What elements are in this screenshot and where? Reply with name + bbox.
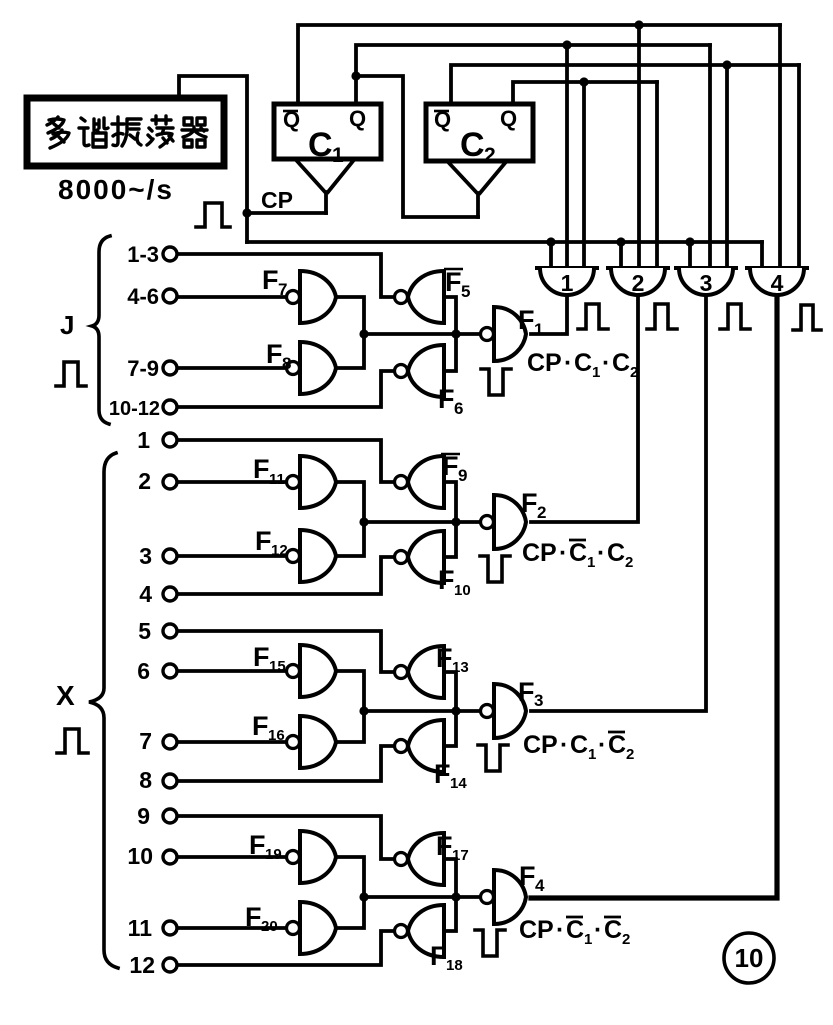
label CP.C1.C2: [527, 349, 638, 381]
input terminal 12: [163, 958, 177, 972]
junction bus3 to gate 3: [722, 60, 731, 69]
svg-text:·: ·: [556, 916, 564, 944]
svg-text:CP: CP: [261, 187, 293, 213]
NAND gate F15: [287, 645, 337, 697]
svg-text:10: 10: [127, 843, 153, 869]
svg-text:1: 1: [584, 931, 592, 948]
wire gate 2 output to F2: [531, 295, 638, 522]
wire F13 and F14 outputs to node: [444, 672, 456, 746]
svg-text:·: ·: [564, 349, 572, 377]
pulse symbol at gate 2 output: [647, 304, 677, 329]
wire bus3 into gate 3: [725, 65, 729, 268]
svg-text:Q: Q: [500, 106, 517, 131]
NAND gate F18: [395, 905, 445, 957]
label F12: [255, 526, 288, 559]
pulse distributor gate 3: [676, 268, 736, 295]
label F18: [430, 941, 463, 974]
figure number circle 10: [724, 933, 774, 983]
svg-text:14: 14: [450, 775, 467, 792]
svg-text:CP: CP: [523, 731, 558, 759]
svg-text:8000~/s: 8000~/s: [58, 174, 174, 205]
input terminal 11: [163, 921, 177, 935]
svg-text:·: ·: [559, 539, 567, 567]
svg-text:F: F: [445, 267, 462, 297]
wire input 2 to F11: [177, 480, 286, 484]
svg-text:F: F: [249, 830, 266, 860]
svg-text:C: C: [608, 731, 626, 759]
pulse symbol at gate 4 output: [793, 305, 821, 330]
label F15: [253, 642, 286, 675]
wire node to F1 input: [364, 332, 480, 336]
svg-text:10-12: 10-12: [109, 398, 160, 420]
label F10: [438, 565, 471, 599]
svg-text:C: C: [607, 539, 625, 567]
input terminal 2: [163, 475, 177, 489]
svg-text:2: 2: [630, 364, 638, 381]
svg-text:C: C: [612, 349, 630, 377]
wire from multivibrator to CP node: [179, 76, 247, 242]
svg-text:3: 3: [534, 691, 543, 710]
pulse symbol at X: [57, 729, 88, 753]
svg-text:·: ·: [597, 539, 605, 567]
svg-text:C: C: [574, 349, 592, 377]
wire input 7-9 to F8: [177, 366, 286, 370]
pulse symbol at gate 1 output: [578, 304, 608, 329]
svg-text:F: F: [438, 384, 455, 414]
wire gate 3 output to F3: [531, 295, 706, 711]
svg-text:10: 10: [735, 943, 764, 973]
flip-flop C1 box: [274, 104, 381, 159]
multivibrator box: [27, 98, 224, 166]
character duo (multi) of multivibrator label: [47, 117, 69, 148]
NAND gate F16: [287, 716, 337, 768]
brace for X inputs: [89, 453, 118, 968]
label F13: [436, 643, 469, 676]
NAND gate F19: [287, 831, 337, 883]
svg-text:11: 11: [269, 471, 285, 488]
wire bus2 into gate 3: [708, 45, 712, 268]
junction CP to gate 1: [546, 237, 555, 246]
label F5: [444, 267, 470, 301]
wire input 9 to F17: [177, 816, 394, 859]
wire input 10 to F19: [177, 855, 286, 859]
NAND gate F4: [481, 870, 527, 924]
wire F7 and F8 outputs to node: [336, 297, 364, 368]
svg-text:1: 1: [587, 554, 595, 571]
svg-text:2: 2: [138, 468, 151, 494]
input terminal 1: [163, 433, 177, 447]
wire CP to C1 trigger: [247, 211, 326, 215]
svg-text:F: F: [518, 305, 535, 335]
svg-text:3: 3: [139, 543, 152, 569]
NAND gate F9: [395, 456, 445, 508]
junction CP node: [242, 208, 251, 217]
label Qbar of C2: [434, 107, 451, 132]
svg-text:C: C: [604, 916, 622, 944]
label F6: [438, 384, 463, 418]
inverted pulse symbol at F2: [480, 556, 510, 582]
pulse distributor gate 1: [537, 268, 597, 295]
wire input 1 to F9: [177, 440, 394, 482]
input terminal 9: [163, 809, 177, 823]
junction bus2 to gate 1: [562, 40, 571, 49]
junction bus4 to gate 1: [579, 77, 588, 86]
label CP.C1bar.C2bar: [519, 916, 630, 948]
wire input 11 to F20: [177, 926, 286, 930]
wire C1 Q to top bus 2: [356, 45, 710, 102]
label F20: [245, 902, 278, 935]
svg-text:C: C: [570, 731, 588, 759]
svg-text:C: C: [460, 126, 485, 164]
wire input 3 to F12: [177, 554, 286, 558]
wire bus1 into gate 2: [637, 25, 641, 268]
wire F17 and F18 outputs to node: [444, 859, 456, 931]
wire node to F2 input: [364, 520, 480, 524]
wire bus3 into gate 4: [797, 65, 801, 268]
wire CP into gate 2: [619, 242, 623, 268]
pulse symbol at gate 3 output: [720, 304, 750, 329]
input terminal 7: [163, 735, 177, 749]
wire F5 and F6 outputs to node: [444, 297, 456, 371]
svg-text:2: 2: [625, 554, 633, 571]
svg-text:1: 1: [561, 270, 574, 296]
svg-text:F: F: [442, 451, 459, 481]
svg-text:17: 17: [452, 847, 469, 864]
wire CP bus horizontal: [247, 240, 762, 244]
svg-text:F: F: [245, 902, 262, 932]
wire bus2 into gate 1: [565, 45, 569, 268]
svg-text:7-9: 7-9: [127, 356, 159, 381]
svg-text:2: 2: [484, 144, 496, 167]
svg-text:7: 7: [278, 280, 287, 299]
NAND gate F12: [287, 530, 337, 582]
junction node left section 4: [359, 892, 368, 901]
svg-text:4: 4: [535, 876, 545, 895]
svg-text:6: 6: [454, 399, 463, 418]
label C1: [308, 126, 344, 167]
junction node right section 4: [451, 892, 460, 901]
svg-text:1: 1: [592, 364, 600, 381]
svg-text:9: 9: [137, 803, 150, 829]
NAND gate F8: [287, 342, 337, 394]
inverted pulse symbol at F3: [478, 745, 508, 771]
NAND gate F13: [395, 646, 445, 698]
svg-text:7: 7: [139, 728, 152, 754]
svg-text:4: 4: [771, 270, 784, 296]
svg-text:F: F: [255, 526, 272, 556]
wire CP into gate 1: [549, 242, 553, 268]
svg-text:8: 8: [139, 767, 152, 793]
svg-text:10: 10: [454, 582, 471, 599]
NAND gate F6: [395, 345, 445, 397]
svg-text:5: 5: [461, 282, 470, 301]
wire C1 Q branch to C2 trigger: [356, 76, 478, 217]
label CP.C1bar.C2: [522, 539, 633, 571]
label F1: [518, 305, 543, 339]
input terminal 7-9: [163, 361, 177, 375]
inverted pulse symbol at F4: [475, 930, 505, 956]
pulse symbol at multivibrator: [196, 203, 230, 227]
flip-flop C2 box: [426, 104, 533, 161]
wire node to F4 input: [364, 895, 480, 899]
junction node right section 2: [451, 517, 460, 526]
NAND gate F2: [481, 495, 527, 549]
svg-text:F: F: [262, 265, 279, 295]
svg-text:F: F: [253, 454, 270, 484]
pulse symbol at J: [56, 362, 86, 386]
svg-text:F: F: [430, 941, 447, 971]
wire F19 and F20 outputs to node: [336, 857, 364, 928]
svg-text:18: 18: [446, 957, 463, 974]
label F11: [253, 454, 285, 488]
svg-text:F: F: [436, 643, 453, 673]
svg-text:2: 2: [632, 270, 645, 296]
wire C2 Qbar to top bus 3: [451, 65, 799, 102]
junction CP to gate 2: [616, 237, 625, 246]
character zhen (oscil-) of multivibrator label: [112, 117, 141, 146]
svg-text:·: ·: [560, 731, 568, 759]
input terminal 8: [163, 774, 177, 788]
junction bus1 to gate 2: [634, 20, 643, 29]
trigger funnel of C2: [449, 163, 505, 217]
svg-text:4-6: 4-6: [127, 284, 159, 309]
NAND gate F7: [287, 271, 337, 323]
svg-text:·: ·: [594, 916, 602, 944]
svg-text:C: C: [569, 539, 587, 567]
svg-text:1: 1: [588, 746, 596, 763]
wire CP into gate 4: [760, 242, 764, 268]
svg-text:1: 1: [332, 144, 344, 167]
label F8: [266, 339, 291, 373]
svg-text:3: 3: [700, 270, 713, 296]
svg-text:5: 5: [138, 618, 151, 644]
svg-text:·: ·: [602, 349, 610, 377]
input terminal 4-6: [163, 289, 177, 303]
svg-text:F: F: [252, 711, 269, 741]
svg-text:13: 13: [452, 659, 469, 676]
input terminal 4: [163, 587, 177, 601]
NAND gate F1: [481, 307, 527, 361]
svg-text:Q: Q: [349, 106, 366, 131]
svg-text:F: F: [434, 759, 451, 789]
NAND gate F17: [395, 833, 445, 885]
svg-text:F: F: [521, 488, 538, 518]
svg-text:9: 9: [458, 466, 467, 485]
label C2: [460, 126, 496, 167]
wire input 8 to F14: [177, 746, 394, 781]
label Qbar of C1: [283, 107, 300, 132]
wire input 4-6 to F7: [177, 295, 286, 299]
wire input 12 to F18: [177, 931, 394, 965]
svg-text:J: J: [60, 310, 74, 340]
svg-text:F: F: [519, 861, 536, 891]
NAND gate F3: [481, 684, 527, 738]
junction CP to gate 3: [685, 237, 694, 246]
wire F9 and F10 outputs to node: [444, 482, 456, 557]
wire input 4 to F10: [177, 557, 394, 594]
pulse distributor gate 4: [747, 268, 807, 295]
wire bus1 into gate 4: [778, 25, 782, 268]
wire CP into gate 3: [688, 242, 692, 268]
svg-text:1: 1: [534, 320, 543, 339]
svg-text:X: X: [56, 680, 75, 711]
svg-text:1: 1: [137, 427, 150, 453]
label F19: [249, 830, 282, 863]
svg-text:F: F: [266, 339, 283, 369]
wire C2 Q to top bus 4: [513, 82, 657, 102]
svg-text:19: 19: [265, 846, 282, 863]
NAND gate F14: [395, 720, 445, 772]
label F9: [441, 451, 467, 485]
wire gate 1 output to F1: [531, 295, 567, 334]
wire bus4 into gate 1: [582, 82, 586, 268]
svg-text:2: 2: [626, 746, 634, 763]
wire F15 and F16 outputs to node: [336, 671, 364, 742]
brace for J inputs: [92, 236, 110, 424]
svg-text:4: 4: [139, 581, 152, 607]
character qi (device) of multivibrator label: [182, 118, 207, 147]
junction C1 Q to C2 trigger: [351, 71, 360, 80]
svg-text:F: F: [436, 831, 453, 861]
svg-text:F: F: [253, 642, 270, 672]
label F16: [252, 711, 285, 744]
input terminal 10: [163, 850, 177, 864]
NAND gate F20: [287, 902, 337, 954]
input terminal 3: [163, 549, 177, 563]
pulse distributor gate 2: [608, 268, 668, 295]
wire C1 Qbar to top bus 1: [298, 25, 780, 102]
junction node left section 2: [359, 517, 368, 526]
svg-text:C: C: [566, 916, 584, 944]
character dang (-lator) of multivibrator label: [147, 116, 173, 147]
svg-text:CP: CP: [522, 539, 557, 567]
label F14: [434, 759, 467, 792]
input terminal 1-3: [163, 247, 177, 261]
svg-text:2: 2: [622, 931, 630, 948]
NAND gate F11: [287, 456, 337, 508]
label CP.C1.C2bar: [523, 731, 634, 763]
label F7: [262, 265, 287, 299]
svg-text:CP: CP: [519, 916, 554, 944]
wire input 10-12 to F6: [177, 371, 394, 407]
label F17: [436, 831, 469, 864]
junction node left section 1: [359, 329, 368, 338]
svg-text:C: C: [308, 126, 333, 164]
svg-text:F: F: [438, 565, 455, 595]
wire input 6 to F15: [177, 669, 286, 673]
wire input 7 to F16: [177, 740, 286, 744]
svg-text:12: 12: [129, 952, 155, 978]
svg-text:1-3: 1-3: [127, 242, 159, 267]
junction node right section 3: [451, 706, 460, 715]
label Q of C1: [349, 106, 366, 131]
input terminal 5: [163, 624, 177, 638]
NAND gate F5: [395, 271, 445, 323]
label F2: [521, 488, 546, 522]
wire F11 and F12 outputs to node: [336, 482, 364, 556]
input terminal 10-12: [163, 400, 177, 414]
wire input 5 to F13: [177, 631, 394, 672]
input terminal 6: [163, 664, 177, 678]
svg-text:16: 16: [268, 727, 285, 744]
wire gate 4 output to F4: [531, 295, 777, 898]
character xie (harmonic) of multivibrator label: [79, 118, 108, 147]
wire input 1-3 to F5: [177, 254, 394, 297]
trigger funnel of C1: [297, 161, 353, 213]
label F3: [518, 677, 543, 710]
svg-text:8: 8: [282, 354, 291, 373]
svg-text:6: 6: [137, 658, 150, 684]
svg-text:·: ·: [598, 731, 606, 759]
junction node left section 3: [359, 706, 368, 715]
label F4: [519, 861, 545, 895]
svg-text:20: 20: [261, 918, 278, 935]
inverted pulse symbol at F1: [481, 369, 511, 395]
svg-text:CP: CP: [527, 349, 562, 377]
svg-text:12: 12: [271, 542, 288, 559]
wire bus4 into gate 2: [655, 82, 659, 268]
label Q of C2: [500, 106, 517, 131]
svg-text:11: 11: [128, 915, 153, 941]
svg-text:15: 15: [269, 658, 286, 675]
NAND gate F10: [395, 531, 445, 583]
wire node to F3 input: [364, 709, 480, 713]
svg-text:F: F: [518, 677, 535, 707]
junction node right section 1: [451, 329, 460, 338]
svg-text:2: 2: [537, 503, 546, 522]
